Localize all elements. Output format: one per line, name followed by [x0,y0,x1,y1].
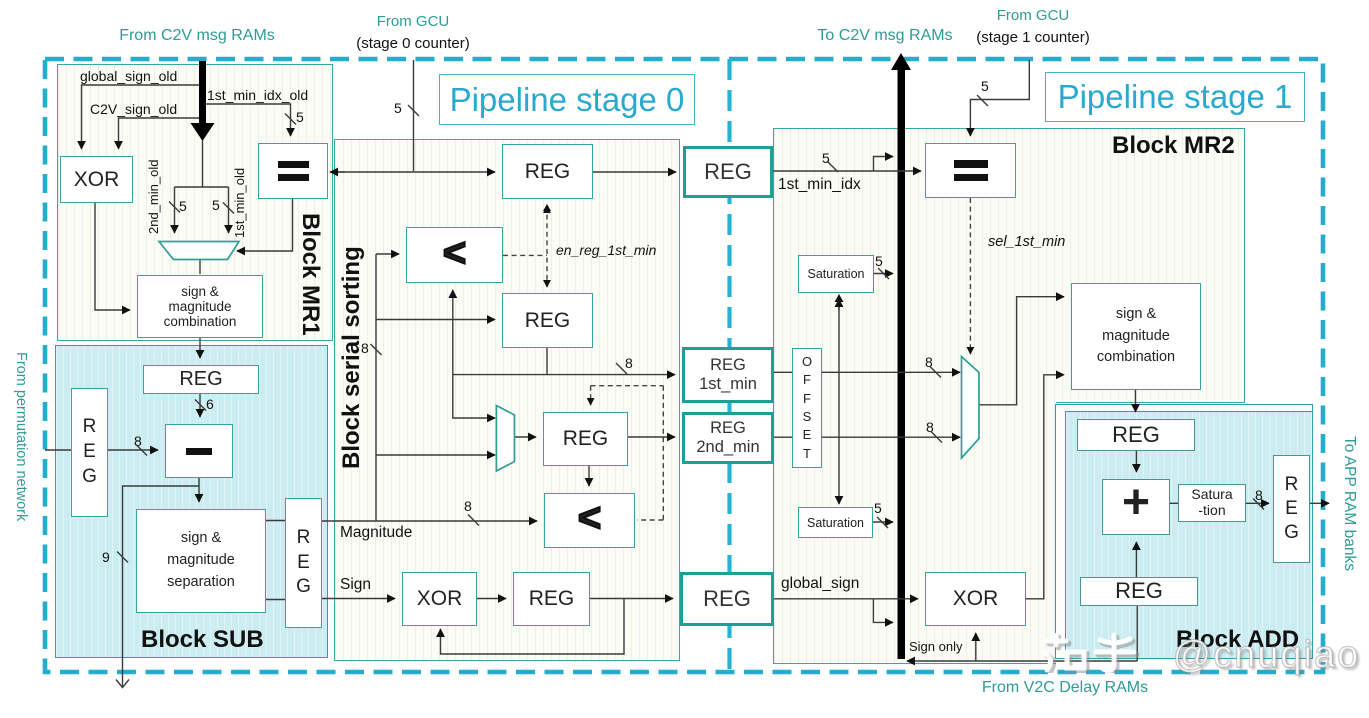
width 5 (reg idx out) [822,150,830,166]
wire Sign [322,598,395,600]
bus slash (9) [117,552,128,563]
wire 1st_min_old branch [228,187,230,233]
wire sorting bus vertical [375,254,377,521]
net sel_1st_min [988,234,1065,250]
width 8 (1st_min out) [625,355,633,371]
bus slash (sub 8) [136,445,147,456]
sign & magnitude separation [136,509,266,613]
wire pipeline 2nd_min to offset [774,436,792,438]
thick To-C2V bus (stage 1) [898,66,906,659]
dashed comparator B enable net [591,386,664,520]
watermark 知乎 @cnuqiao [1042,633,1360,677]
wire mux1 output to combination [979,297,1064,405]
block name: Block MR2 [1112,132,1235,160]
node: From GCU (stage 0 counter) [300,13,526,30]
wire separation to REG lower [266,599,285,601]
net C2V_sign_old [90,101,177,117]
arrow up into sorting REG A (en_reg) [543,204,551,211]
block serial sorting background [334,139,680,661]
node: From V2C Delay RAMs [905,679,1225,697]
XOR gate (MR1) [60,156,133,203]
block name: Block ADD [1176,626,1299,654]
width 8 (magnitude) [464,498,472,514]
net en_reg_1st_min [556,242,656,258]
wire C2V_sign_old [119,118,200,149]
block ADD outer box [1055,404,1313,659]
wire offset out 2nd (8) to mux1 [822,436,960,438]
net Sign only [909,639,962,654]
wire idx branch to C2V bus [874,157,894,172]
wire REG to subtractor (6) [199,394,201,417]
dashed sel_1st_min [969,198,971,354]
wire 1st_min 8-bit to pipeline [453,374,675,376]
bus slash (mux1 in2 8) [931,432,942,443]
block MR2 background [773,128,1245,403]
width 5 (2nd_min_old mux) [179,198,187,214]
wire saturation upper out 5 [874,273,893,275]
bus slash (add 8) [1253,499,1264,510]
wire comparator A feedback up [452,290,454,375]
bus slash (sat1 5) [878,268,889,279]
width 8 (adder out) [1255,487,1263,503]
wire sign feedback loop [441,599,625,655]
wire saturation to REG out (8) [1246,502,1269,504]
arrow up into saturation upper [838,299,840,310]
pipeline stage 0 title [439,74,695,125]
comparator < (lower) [544,493,635,548]
wire combination to ADD REG [1135,390,1137,412]
wire 1st_min_idx_old [206,104,291,136]
width 6 (sub) [206,396,214,412]
block name: Block serial sorting [338,245,366,471]
register REG (SUB top) [143,365,259,394]
wire 9-bit branch down [123,486,200,687]
pipeline register REG (global_sign) [680,572,774,626]
wire bus to REG B [376,319,495,321]
wire saturation lower out 5 [873,521,893,523]
adder + [1102,479,1170,535]
pipeline register REG 2nd_min [682,412,774,464]
width 8 (sorting bus) [361,340,369,356]
thick C2V input bus (stage 0) [199,61,206,124]
wire rail up to ADD REG bottom [1136,606,1138,661]
wire to mux0 upper input [453,375,495,418]
bus slash (mux1 in1 8) [930,367,941,378]
net 1st_min_old [232,136,247,238]
width 5 (saturation lower) [874,500,882,516]
saturation (upper) [798,255,874,293]
wire pipeline REG idx to = MR2 [773,170,921,172]
register REG (ADD bottom) [1080,577,1198,606]
wire GCU stage0 counter [413,60,415,171]
net Magnitude [340,524,412,542]
wire subtractor to separation [198,478,200,502]
width 8 (2nd_min to mux) [926,419,934,435]
node: From permutation network [13,352,29,557]
arrow up into saturation upper [835,294,844,302]
pipeline separator dashed [727,59,731,672]
width 5 (GCU stage1) [981,78,989,94]
wire REG out to APP RAM [1310,502,1329,504]
wire XOR1 up to combination [1026,375,1064,599]
wire offset out 1st (8) to mux1 [822,371,960,373]
saturation (ADD) [1178,484,1246,522]
register REG vertical (ADD out) [1273,455,1310,563]
width 8 (1st_min to mux) [925,354,933,370]
bus slash (6) [195,400,206,411]
wire mux0 to REG C [515,436,536,438]
wire GCU stage1 counter [970,60,1029,136]
width 5 (1st_min_idx_old) [296,109,304,125]
dashed enable into REG C [590,386,592,405]
wire V2C bottom rail [907,660,1137,662]
comparator = (MR1) [258,143,328,199]
dashed en_reg to REG B (down) [546,280,548,287]
pipeline register REG 1st_min [682,347,774,403]
arrowhead into = [330,171,345,173]
register REG (sorting top) [502,144,593,199]
wire pipeline 1st_min to offset [774,371,792,373]
comparator = (MR2) [925,143,1016,198]
width 9 (sub raw) [102,549,110,565]
register REG vertical (SUB output) [285,498,322,628]
bus slash (GCU1 5) [977,95,988,106]
dashed en_reg vertical [546,206,548,286]
wire sorting REG to pipeline REG [593,171,676,173]
node: From GCU (stage 1 counter) [920,7,1146,24]
node: To APP RAM banks [1340,436,1358,588]
wire bus to comparator A [376,253,399,255]
width 5 (saturation upper) [875,253,883,269]
register REG (2nd min hold) [543,412,628,466]
dashed comparator A out [503,254,547,256]
net global_sign [781,575,859,593]
wire = to mux select [237,199,293,251]
wire saturation upper link [838,297,840,504]
net Sign [340,576,371,594]
register REG (sign) [513,572,590,626]
bus slash (sorting 8) [371,344,382,355]
block SUB background [55,345,328,658]
wire REG C to comparator B [588,466,590,486]
sign & magnitude combination (MR1) [137,275,263,338]
net 1st_min_idx_old [207,87,308,103]
saturation (lower) [798,507,873,538]
bus slash (GCU0 5) [408,105,419,116]
block name: Block SUB [141,626,264,654]
wire adder to saturation [1170,502,1178,504]
wire Magnitude [322,520,537,522]
wire global_sign branch to C2V bus [873,599,893,623]
wire global_sign to XOR1 [774,598,918,600]
wire REG C to pipeline 2nd_min [628,436,675,438]
block name: Block MR1 [296,213,324,339]
bus slash (1st_min 8) [616,363,627,374]
wire separation to REG upper [266,520,285,522]
mux MR2 (trapezoid) [962,357,980,459]
width 5 (1st_min_old mux) [212,197,220,213]
width 5 (GCU stage0) [394,100,402,116]
wire REG to subtractor (8) [108,449,158,451]
comparator < (upper) [406,227,503,283]
stage1 left background [773,128,1056,664]
wire XOR0 to REG0 [477,598,506,600]
pipeline stage 1 title [1045,72,1305,122]
bus slash (1st_min_idx_old 5) [285,114,296,125]
bus slash (sat2 5) [877,517,888,528]
register REG (ADD top) [1077,419,1195,451]
wire REG0 to pipeline REG global_sign [590,598,673,600]
node: From C2V msg RAMs [57,27,337,45]
wire ADD REG to adder [1135,451,1137,472]
bus slash (magnitude 8) [468,515,479,526]
dashed en_reg to REG A (up) [546,206,548,212]
wire bus to mux0 lower input [376,454,495,456]
outer dashed frame [45,59,1323,672]
wire permutation input [45,449,71,451]
wire ADD REG bottom to adder [1135,542,1137,577]
wire global_sign_old [82,85,200,149]
bus slash (idx 5) [827,161,838,172]
sign & magnitude combination (MR2) [1071,283,1201,390]
node: To C2V msg RAMs [745,27,1025,45]
bus slash (1st_min_old 5) [223,203,234,214]
mux sorting (trapezoid) [496,406,514,472]
wire mux0 output [199,260,201,275]
wire sign only to XOR1 [975,633,977,661]
net global_sign_old [80,68,177,84]
mux MR1 (trapezoid) [159,242,239,260]
register REG vertical (SUB input) [71,388,108,517]
XOR gate (MR2) [925,572,1026,626]
block ADD inner box [1065,411,1313,659]
subtractor - [165,424,233,478]
width 8 (sub in) [134,433,142,449]
block MR1 background [57,64,333,341]
offset block [792,348,822,468]
wire REG B down join [546,348,548,375]
pipeline register REG (1st_min_idx) [683,146,773,198]
wire = to sorting REG (bidirectional) [335,171,495,173]
XOR gate (sorting sign) [402,572,477,626]
wire combination to REG sub [199,338,201,358]
bus slash (2nd_min_old 5) [169,202,180,213]
net 1st_min_idx [778,176,861,194]
wire mux split bar [175,140,229,233]
net 2nd_min_old [146,132,161,234]
register REG (1st min hold) [502,293,593,348]
wire XOR to combination [95,203,130,310]
